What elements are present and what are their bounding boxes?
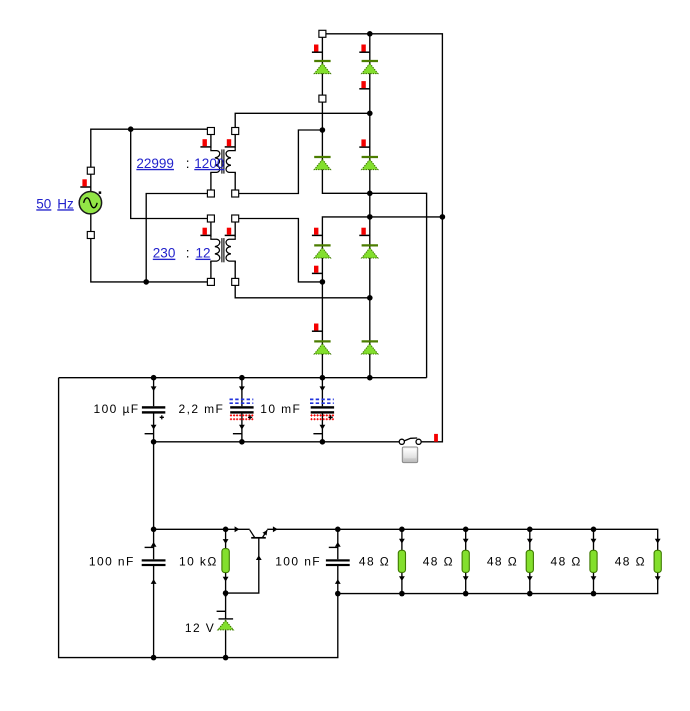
probe mark above D6 (359, 228, 370, 236)
probe mark AC source lead (80, 179, 91, 187)
current arrow above RL3 (527, 539, 533, 544)
node junction 7 (440, 214, 446, 220)
current arrow into Q1 collector (235, 526, 240, 532)
current arrow below C2 (239, 425, 245, 430)
node junction 9 (320, 279, 326, 285)
wire: load bank bottom rail (338, 572, 658, 593)
wire: 2.2mF capacitor branch (241, 378, 243, 442)
capacitor C1 100uF plates (142, 406, 165, 419)
svg-text:22999: 22999 (136, 156, 174, 171)
current arrow above RL2 (463, 539, 469, 544)
label T2 ratio colon (186, 246, 190, 261)
wire: load resistor R1 leads (401, 529, 403, 593)
load resistor RL5 48 ohm body (654, 550, 661, 572)
probe mark T2 primary (200, 228, 211, 236)
current arrow above B1 (223, 593, 229, 598)
node junction 24 (591, 527, 597, 533)
wire: load resistor R2 leads (465, 529, 467, 593)
wire: base wire from divider node to transistor base (226, 538, 259, 593)
wire: T2 secondary top terminal right-down-right to diode column 1 lower midpoint (235, 219, 322, 282)
label B1 value 12 V (185, 621, 215, 635)
node junction 17 (320, 439, 326, 445)
terminal: T1 secondary top (232, 128, 239, 135)
probe mark above D5 (312, 228, 323, 236)
svg-text:48 Ω: 48 Ω (487, 555, 518, 569)
current arrow above C5 (335, 542, 341, 547)
terminal: T2 secondary top (232, 215, 239, 222)
svg-text:1200: 1200 (194, 156, 224, 171)
capacitor C3 10mF plates (310, 399, 334, 420)
current arrow above RL5 (655, 539, 661, 544)
wire: 100nF capacitor 1 branch (153, 529, 155, 657)
svg-text:10 mF: 10 mF (260, 402, 301, 416)
label C5 value 100 nF (275, 555, 321, 569)
node junction 25 (223, 590, 229, 596)
current arrow below C3 (320, 425, 326, 430)
svg-text:230: 230 (153, 246, 176, 261)
label RL1 value 48 ohm (359, 555, 390, 569)
probe mark above D2 (359, 45, 370, 53)
node junction 6 (367, 214, 373, 220)
node junction 16 (239, 439, 245, 445)
current arrow above C4 (151, 542, 157, 547)
node junction 11 (151, 375, 157, 381)
wire: 100nF capacitor 2 branch (337, 529, 339, 593)
node junction 2 (128, 126, 134, 132)
svg-text:100 nF: 100 nF (89, 555, 135, 569)
wire: link between filter stage and regulator stage (153, 442, 155, 530)
node junction 30 (591, 591, 597, 597)
label T2 ratio secondary 12 (196, 246, 211, 261)
wire: T1 secondary top terminal up and right to diode column 2 (235, 113, 370, 131)
load resistor RL4 48 ohm body (590, 550, 597, 572)
battery B1 12V top plate (219, 618, 234, 620)
switch left contact (399, 439, 404, 444)
wire: load resistor R3 leads (529, 529, 531, 593)
node junction 10 (367, 295, 373, 301)
battery B1 12V cell triangle (218, 620, 233, 629)
wire: top rail, right rail down to switch (322, 34, 442, 442)
node junction 26 (335, 591, 341, 597)
load resistor RL2 48 ohm body (462, 550, 469, 572)
switch right contact (416, 439, 421, 444)
AC source 50 Hz (79, 192, 101, 214)
svg-text:48 Ω: 48 Ω (615, 555, 646, 569)
terminal: diode column 1 mid (319, 95, 326, 102)
transformer T2 (230:12) windings and core (211, 237, 235, 263)
wire: T1 winding leads (211, 135, 235, 190)
node junction 23 (527, 527, 533, 533)
wire: T1 primary bottom to node on source bottom rail (146, 194, 211, 282)
node junction 29 (527, 591, 533, 597)
label RL3 value 48 ohm (487, 555, 518, 569)
current arrow below C1 (151, 425, 157, 430)
node junction 27 (399, 591, 405, 597)
wire: 10k resistor branch (225, 529, 227, 593)
wire: regulator top rail to transistor collector (154, 528, 250, 530)
node junction 14 (367, 375, 373, 381)
terminal: T1 primary top (207, 128, 214, 135)
node junction 15 (151, 439, 157, 445)
current arrow below C4 (151, 579, 157, 584)
wire: left outer rail and bottom return rail (59, 378, 338, 658)
wire: load resistor R4 leads (593, 529, 595, 593)
probe tick above C5 (329, 546, 338, 548)
wire: T2 secondary bottom terminal down and right to diode column 2 lower midpoint (235, 282, 370, 298)
node junction 31 (151, 655, 157, 661)
label C2 value 2,2 mF (179, 402, 225, 416)
probe mark T2 secondary (225, 228, 236, 236)
wire: T1 secondary bottom terminal right-up-right to diode column 1 midpoint (235, 130, 322, 194)
node junction 1 (367, 31, 373, 37)
svg-text::: : (186, 246, 190, 261)
probe tick below C3 (313, 433, 322, 435)
node junction 32 (223, 655, 229, 661)
capacitor C5 100nF plates (326, 559, 350, 566)
probe tick above C4 (145, 546, 154, 548)
label C1 value 100 µF (94, 402, 140, 416)
load resistor RL1 48 ohm body (398, 550, 405, 572)
wire: diode column 1 upper segment, right along mid rail, down to filter top rail (322, 34, 426, 378)
label RL4 value 48 ohm (551, 555, 582, 569)
switch lever (404, 438, 417, 441)
node junction 18 (151, 527, 157, 533)
wire: AC source top lead to top-left rail and transformer T1 primary top (91, 129, 211, 191)
node junction 22 (463, 527, 469, 533)
current arrow above RL4 (591, 539, 597, 544)
current arrow above RL1 (399, 539, 405, 544)
resistor R6 10k body (222, 549, 229, 573)
node junction 13 (320, 375, 326, 381)
transistor Q1 emitter lead (263, 530, 268, 537)
wire: transistor emitter rail to load bank and right drop (267, 529, 658, 550)
transformer T1 (22999:1200) windings and core (211, 149, 235, 175)
terminal: T2 primary top (207, 215, 214, 222)
diode D2 (362, 61, 378, 74)
transistor Q1 emitter arrow (263, 530, 268, 535)
wire: T2 winding leads (211, 222, 235, 278)
label 50 Hz unit (57, 196, 74, 211)
terminal: T2 secondary bottom (232, 278, 239, 285)
terminal: diode column 1 top (319, 30, 326, 37)
svg-text:48 Ω: 48 Ω (359, 555, 390, 569)
terminal: AC source bottom (87, 232, 94, 239)
probe mark T1 secondary (225, 139, 236, 147)
probe mark above D1 (312, 45, 323, 53)
current arrow on Q1 base wire (256, 555, 262, 560)
current arrow below RL4 (591, 576, 597, 581)
node junction 3 (367, 111, 373, 117)
svg-text:12: 12 (196, 246, 211, 261)
node junction 28 (463, 591, 469, 597)
svg-text:48 Ω: 48 Ω (551, 555, 582, 569)
current arrow out of Q1 emitter (273, 526, 278, 532)
node junction 19 (223, 527, 229, 533)
probe tick above B1 (217, 610, 226, 612)
terminal: T1 primary bottom (207, 190, 214, 197)
current arrow below RL5 (655, 576, 661, 581)
node junction 21 (399, 527, 405, 533)
label RL2 value 48 ohm (423, 555, 454, 569)
wire: 12V battery branch (225, 593, 227, 658)
current arrow below RL2 (463, 576, 469, 581)
diode D1 (314, 61, 330, 74)
svg-text:100 µF: 100 µF (94, 402, 140, 416)
probe mark below D5 (312, 266, 323, 274)
svg-text:12 V: 12 V (185, 621, 215, 635)
probe mark at switch (434, 434, 438, 442)
diode D3 (314, 157, 330, 170)
wire: 10mF capacitor branch (321, 378, 323, 442)
svg-text:10 kΩ: 10 kΩ (179, 555, 218, 569)
label T1 ratio colon (186, 156, 190, 171)
diode D6 (362, 245, 378, 258)
node junction 5 (367, 191, 373, 197)
wire: capacitor bottom rail to switch (154, 441, 400, 443)
current arrow above C1 (151, 386, 157, 391)
node junction 20 (335, 527, 341, 533)
current arrow above C2 (239, 386, 245, 391)
transistor Q1 base bar (251, 537, 266, 539)
svg-text:100 nF: 100 nF (275, 555, 321, 569)
label C3 value 10 mF (260, 402, 301, 416)
probe mark below D2 (359, 81, 370, 89)
transistor Q1 collector lead (250, 530, 255, 538)
current arrow below R6 (223, 577, 229, 582)
terminal: T2 primary bottom (207, 278, 214, 285)
probe tick below C2 (233, 433, 242, 435)
svg-text:48 Ω: 48 Ω (423, 555, 454, 569)
wire: diode column 2 vertical (369, 34, 371, 378)
probe tick below C1 (145, 433, 154, 435)
svg-text:Hz: Hz (57, 196, 74, 211)
label R6 value 10 kΩ (179, 555, 218, 569)
wire: AC source bottom lead to bottom rail to T2 primary bottom (91, 215, 211, 282)
AC source polarity dot (99, 191, 102, 194)
capacitor C2 2.2mF plates (230, 399, 254, 420)
capacitor C4 100nF plates (142, 559, 166, 566)
node junction 12 (239, 375, 245, 381)
wire: 100uF capacitor branch (153, 378, 155, 442)
diode D5 (314, 245, 330, 258)
svg-text:50: 50 (36, 196, 51, 211)
load resistor RL3 48 ohm body (526, 550, 533, 572)
wire: junction down-leg to transformer T2 primary top (131, 129, 211, 218)
node junction 4 (320, 127, 326, 133)
terminal: T1 secondary bottom (232, 190, 239, 197)
current arrow above R6 (223, 539, 229, 544)
svg-text::: : (186, 156, 190, 171)
label RL5 value 48 ohm (615, 555, 646, 569)
current arrow below RL1 (399, 576, 405, 581)
current arrow above C3 (320, 386, 326, 391)
label T2 ratio primary 230 (153, 246, 176, 261)
svg-text:2,2 mF: 2,2 mF (179, 402, 225, 416)
node junction 8 (143, 279, 149, 285)
terminal: AC source top (87, 167, 94, 174)
probe mark above D7 (312, 324, 323, 332)
label T1 ratio secondary 1200 (194, 156, 224, 171)
wire: filter capacitor top rail (59, 377, 427, 379)
label 50 Hz value (36, 196, 51, 211)
label T1 ratio primary 22999 (136, 156, 174, 171)
current arrow below RL3 (527, 576, 533, 581)
wire: mid rail 2 and diode column 1 lower segment (322, 217, 442, 378)
probe mark T1 primary (200, 139, 211, 147)
label C4 value 100 nF (89, 555, 135, 569)
current arrow below C5 (335, 579, 341, 584)
probe mark above D4 (359, 139, 370, 147)
diode D8 (362, 341, 378, 354)
diode D7 (314, 341, 330, 354)
switch pushbutton icon (402, 447, 417, 463)
diode D4 (362, 157, 378, 170)
